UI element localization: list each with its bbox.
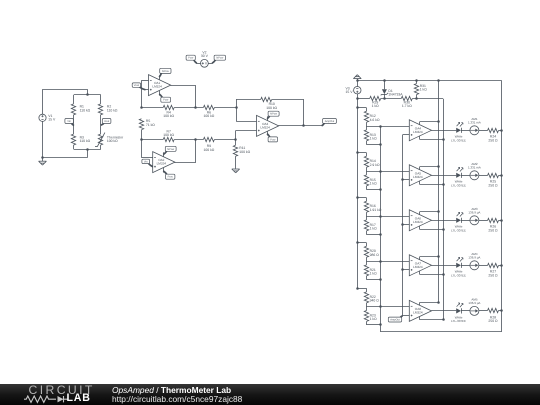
resistor R4 bbox=[163, 105, 174, 109]
wire OA8 V- stub bbox=[419, 316, 421, 319]
resistor R3 bbox=[71, 134, 75, 145]
wire R14 bottom lead bbox=[366, 167, 368, 171]
net flag AmpOut at OA3 output bbox=[322, 123, 325, 126]
voltage source V1 bbox=[39, 114, 46, 121]
wire bridge bottom rail bbox=[74, 149, 101, 151]
wire OA7 V- stub bbox=[419, 271, 421, 274]
wire LED to ammeter bbox=[461, 265, 470, 267]
wire OA7 V- to bus bbox=[420, 274, 444, 276]
wire R7 to R9 bbox=[174, 139, 203, 141]
wire divider 3 bottom elbow bbox=[366, 234, 380, 236]
svg-text:250 Ω: 250 Ω bbox=[488, 274, 498, 278]
wire OA1 feedback vertical bbox=[141, 81, 143, 108]
junction divider 5 top bbox=[356, 287, 359, 290]
svg-text:NPow: NPow bbox=[216, 57, 223, 60]
junction OA2 output node bbox=[194, 138, 197, 141]
junction V3 / reference rail bbox=[356, 97, 359, 100]
resistor R23 bbox=[364, 310, 368, 321]
svg-text:100 kΩ: 100 kΩ bbox=[107, 139, 118, 143]
thermistor diagonal foot bbox=[95, 146, 97, 148]
wire R15 top lead bbox=[366, 171, 368, 175]
wire ammeter to R27 bbox=[479, 265, 488, 267]
wire R2 top lead bbox=[100, 95, 102, 104]
svg-text:NPow: NPow bbox=[167, 148, 174, 151]
wire OA4 noninverting input bbox=[403, 134, 410, 136]
wire R11 to ground bbox=[235, 156, 237, 169]
wire ammeter to R24 bbox=[479, 130, 488, 132]
junction OA8 V+ bbox=[437, 301, 440, 304]
svg-text:100 kΩ: 100 kΩ bbox=[163, 133, 174, 137]
svg-text:136.9 µA: 136.9 µA bbox=[468, 301, 480, 305]
wire OA7 V+ to bus bbox=[420, 256, 439, 258]
wire OA3 V- stub bbox=[267, 131, 269, 135]
svg-text:110 kΩ: 110 kΩ bbox=[80, 139, 91, 143]
wire R22 bottom lead bbox=[366, 303, 368, 307]
wire divider 1 bottom elbow bbox=[366, 144, 380, 146]
wire R22 top lead bbox=[366, 288, 368, 292]
wire R11 top lead bbox=[235, 139, 237, 145]
wire bridge top rail bbox=[74, 94, 101, 96]
svg-text:1N4733A: 1N4733A bbox=[388, 93, 403, 97]
node flag Vin (bridge left) bbox=[71, 123, 74, 126]
svg-text:250 Ω: 250 Ω bbox=[488, 139, 498, 143]
ammeter AM2 bbox=[470, 171, 479, 180]
svg-text:LM324: LM324 bbox=[413, 220, 423, 224]
wire R28 to right rail bbox=[499, 310, 502, 312]
wire R5 bottom bbox=[141, 130, 143, 140]
wire OA7 V+ stub bbox=[419, 257, 421, 260]
svg-text:1 kΩ: 1 kΩ bbox=[370, 227, 378, 231]
wire OA8 output to LED bbox=[432, 310, 457, 312]
svg-text:AmpOut: AmpOut bbox=[325, 120, 335, 123]
svg-text:LM324: LM324 bbox=[157, 162, 167, 166]
svg-text:4.6 kΩ: 4.6 kΩ bbox=[370, 118, 380, 122]
junction input bus row 2 bbox=[401, 178, 404, 181]
wire comparator V+ bus bbox=[438, 81, 440, 303]
junction bridge top bbox=[86, 93, 89, 96]
wire R3 bottom lead bbox=[73, 145, 75, 149]
net flag Pow at OA3 bbox=[267, 134, 270, 138]
junction row 2 / right rail bbox=[500, 174, 503, 177]
svg-text:LTL-307EE: LTL-307EE bbox=[451, 319, 466, 323]
wire divider 4 bottom elbow bbox=[366, 279, 380, 281]
wire OA5 V- to bus bbox=[420, 184, 444, 186]
wire node A between R1 and R3 bbox=[73, 115, 75, 134]
resistor R14 bbox=[364, 156, 368, 167]
junction OA1 output node bbox=[194, 106, 197, 109]
wire to R29 bbox=[357, 98, 369, 100]
wire R23 top lead bbox=[366, 307, 368, 311]
wire R21 bottom lead bbox=[366, 276, 368, 279]
junction OA5 V+ bbox=[437, 165, 440, 168]
junction OA7 V+ bbox=[437, 255, 440, 258]
ammeter AM1 bbox=[470, 126, 479, 135]
junction bus A top bbox=[437, 79, 440, 82]
wire divider 5 top elbow bbox=[357, 288, 366, 290]
svg-text:AmpOut: AmpOut bbox=[390, 319, 400, 322]
svg-text:110 kΩ: 110 kΩ bbox=[107, 108, 118, 112]
wire V2 left lead bbox=[197, 63, 201, 65]
wire OA6 V+ stub bbox=[419, 212, 421, 215]
svg-text:NPow: NPow bbox=[270, 113, 277, 116]
junction OA1 inverting node bbox=[140, 106, 143, 109]
wire divider 3 top elbow bbox=[357, 197, 366, 199]
wire OA5 V+ stub bbox=[419, 167, 421, 170]
wire R29 to R30 bbox=[381, 98, 402, 100]
op-amp OA2 (LM324) bbox=[153, 152, 175, 173]
svg-text:1 kΩ: 1 kΩ bbox=[370, 272, 378, 276]
resistor R27 bbox=[488, 263, 499, 267]
wire R1 top lead bbox=[73, 95, 75, 104]
junction row 5 / right rail bbox=[500, 309, 503, 312]
wire top rail bbox=[357, 80, 502, 82]
wire OA7 noninverting input bbox=[403, 269, 410, 271]
resistor R6 bbox=[203, 105, 214, 109]
wire feedback right vertical bbox=[303, 99, 305, 126]
net flag Pow at V2 bbox=[193, 59, 197, 63]
junction input bus row 4 bbox=[401, 268, 404, 271]
wire LED to ammeter bbox=[461, 130, 470, 132]
svg-text:15 V: 15 V bbox=[48, 118, 56, 122]
wire V3 bottom lead bbox=[357, 94, 359, 99]
svg-text:136.9 µA: 136.9 µA bbox=[468, 210, 480, 214]
wire R30 to bus B bbox=[412, 98, 443, 100]
resistor R17 bbox=[364, 220, 368, 231]
svg-text:LM324: LM324 bbox=[260, 126, 270, 130]
wire R15 bottom lead bbox=[366, 186, 368, 189]
wire R20 top lead bbox=[366, 243, 368, 247]
wire OA4 V+ stub bbox=[419, 122, 421, 125]
wire node B between R2 and thermistor bbox=[100, 115, 102, 134]
svg-text:1 kΩ: 1 kΩ bbox=[370, 137, 378, 141]
node flag Vout at OA1 + bbox=[139, 86, 146, 89]
wire R4 to R6 bbox=[174, 107, 203, 109]
svg-text:1 kΩ: 1 kΩ bbox=[370, 317, 378, 321]
wire LED to ammeter bbox=[461, 310, 470, 312]
wire OA4 output to LED bbox=[432, 130, 457, 132]
wire OA3 inverting input bbox=[236, 121, 256, 123]
wire right edge rail bbox=[501, 81, 503, 332]
wire OA8 V- to bus bbox=[420, 319, 444, 321]
junction OA8 V- bbox=[442, 318, 445, 321]
resistor R24 bbox=[488, 128, 499, 132]
footer url bbox=[112, 394, 242, 404]
wire divider 1 tap to comparator bbox=[366, 126, 409, 128]
wire R12 top lead bbox=[366, 108, 368, 112]
wire OA2 output to R7/R9 node bbox=[175, 140, 196, 163]
wire thermistor bottom lead bbox=[100, 145, 102, 149]
LED D3 (White LTL-307EE) bbox=[456, 173, 461, 178]
resistor R30 bbox=[401, 96, 412, 100]
op-amp OA7 (LM324) bbox=[409, 255, 431, 276]
wire R20 bottom lead bbox=[366, 257, 368, 261]
svg-text:986 Ω: 986 Ω bbox=[370, 253, 380, 257]
wire OA3 V+ stub bbox=[267, 116, 269, 120]
net flag AmpOut at OA8 + bbox=[399, 316, 403, 319]
wire OA6 output to LED bbox=[432, 220, 457, 222]
wire divider 2 bottom elbow bbox=[366, 189, 380, 191]
svg-text:Vout: Vout bbox=[104, 120, 109, 123]
op-amp OA5 (LM324) bbox=[409, 165, 431, 186]
wire comparator V- bus bbox=[443, 99, 445, 320]
svg-text:250 Ω: 250 Ω bbox=[488, 184, 498, 188]
wire LED to ammeter bbox=[461, 175, 470, 177]
junction OA6 V+ bbox=[437, 210, 440, 213]
wire to R7 bbox=[141, 139, 163, 141]
wire R13 bottom lead bbox=[366, 141, 368, 144]
junction OA4 V- bbox=[442, 138, 445, 141]
wire OA2 feedback vertical bbox=[141, 139, 143, 157]
wire bridge top stem bbox=[87, 89, 89, 95]
ground near V1 bbox=[39, 160, 47, 162]
resistor R31 bbox=[416, 81, 418, 84]
wire divider 3 tap to comparator bbox=[366, 216, 409, 218]
wire R17 bottom lead bbox=[366, 231, 368, 234]
svg-text:1 kΩ: 1 kΩ bbox=[420, 88, 428, 92]
wire ground stem bbox=[357, 79, 359, 81]
junction output / feedback bbox=[302, 124, 305, 127]
resistor R26 bbox=[488, 218, 499, 222]
wire divider return bus bbox=[380, 126, 382, 332]
wire OA4 V- stub bbox=[419, 136, 421, 139]
resistor R13 bbox=[364, 130, 368, 141]
wire OA1 V- stub bbox=[159, 91, 161, 96]
junction row 3 / right rail bbox=[500, 219, 503, 222]
wire OA8 V+ stub bbox=[419, 302, 421, 305]
resistor R29 bbox=[370, 96, 381, 100]
junction tap 5 bbox=[379, 305, 382, 308]
wire OA3 output bbox=[279, 125, 322, 127]
svg-text:LM324: LM324 bbox=[413, 130, 423, 134]
net flag Pow at OA2 bbox=[163, 171, 167, 175]
wire OA4 V+ to bus bbox=[420, 121, 439, 123]
wire V2 right lead bbox=[208, 63, 212, 65]
svg-text:30 V: 30 V bbox=[201, 54, 209, 58]
wire OA3 inverting vertical bbox=[236, 99, 238, 121]
wire OA3 noninverting input bbox=[236, 130, 257, 132]
node flag Vin at OA2 + bbox=[148, 163, 153, 167]
wire V3+ vertical bus bbox=[357, 99, 359, 288]
resistor R5 bbox=[139, 119, 143, 130]
op-amp OA1 (LM324) bbox=[149, 75, 171, 96]
svg-text:Pow: Pow bbox=[163, 99, 168, 102]
wire OA1 inverting input bbox=[141, 80, 148, 82]
wire OA6 V- stub bbox=[419, 226, 421, 229]
resistor R28 bbox=[488, 308, 499, 312]
svg-text:LM324: LM324 bbox=[413, 175, 423, 179]
wire OA6 V- to bus bbox=[420, 229, 444, 231]
LED D2 (White LTL-307EE) bbox=[456, 128, 461, 133]
wire R21 top lead bbox=[366, 261, 368, 265]
wire OA8 V+ to bus bbox=[420, 302, 439, 304]
wire OA6 V+ to bus bbox=[420, 211, 439, 213]
footer title bbox=[112, 385, 231, 395]
op-amp OA6 (LM324) bbox=[409, 210, 431, 231]
net flag NPow at OA2 bbox=[163, 150, 167, 154]
wire R13 top lead bbox=[366, 126, 368, 130]
svg-text:NPow: NPow bbox=[162, 70, 169, 73]
ammeter AM3 bbox=[470, 216, 479, 225]
svg-text:LTL-307EE: LTL-307EE bbox=[451, 183, 466, 187]
svg-text:136.9 µA: 136.9 µA bbox=[468, 255, 480, 259]
svg-text:100 kΩ: 100 kΩ bbox=[203, 114, 214, 118]
svg-text:Vin: Vin bbox=[67, 120, 71, 123]
net flag NPow at OA1 bbox=[159, 73, 162, 78]
ammeter AM4 bbox=[470, 261, 479, 270]
junction OA6 V- bbox=[442, 228, 445, 231]
svg-text:LTL-307EE: LTL-307EE bbox=[451, 138, 466, 142]
wire OA2 V+ stub bbox=[163, 152, 165, 156]
svg-text:Vin: Vin bbox=[144, 160, 148, 163]
junction R31 top bbox=[415, 79, 418, 82]
net flag NPow at V2 bbox=[212, 59, 216, 63]
wire ammeter to R28 bbox=[479, 310, 488, 312]
wire to R4 bbox=[141, 107, 163, 109]
wire to R9 node bbox=[235, 131, 237, 140]
junction OA7 V- bbox=[442, 273, 445, 276]
wire to ground bbox=[42, 158, 44, 161]
wire OA2 inverting input bbox=[141, 157, 152, 159]
svg-text:1.331 mA: 1.331 mA bbox=[468, 165, 481, 169]
junction R31 bottom bbox=[415, 97, 418, 100]
thermistor RT1 bbox=[98, 134, 102, 145]
wire R17 top lead bbox=[366, 216, 368, 220]
resistor R16 bbox=[364, 201, 368, 212]
wire OA1 noninverting lead bbox=[145, 89, 148, 91]
svg-text:250 Ω: 250 Ω bbox=[488, 229, 498, 233]
junction divider 1 top bbox=[356, 106, 359, 109]
svg-text:2.9 kΩ: 2.9 kΩ bbox=[370, 163, 380, 167]
junction tap 3 bbox=[379, 215, 382, 218]
wire R27 to right rail bbox=[499, 265, 502, 267]
wire V1 bottom bbox=[42, 121, 44, 157]
wire OA5 V- stub bbox=[419, 181, 421, 184]
op-amp OA4 (LM324) bbox=[409, 120, 431, 141]
wire OA6 noninverting input bbox=[403, 224, 410, 226]
svg-text:1.7 kΩ: 1.7 kΩ bbox=[402, 104, 412, 108]
wire R14 top lead bbox=[366, 153, 368, 157]
LED D5 (White LTL-307EE) bbox=[456, 263, 461, 268]
wire R16 top lead bbox=[366, 198, 368, 202]
CircuitLab logo: LAB bbox=[67, 392, 91, 404]
junction tap 4 bbox=[379, 260, 382, 263]
junction row 1 / right rail bbox=[500, 129, 503, 132]
CircuitLab logo: CIRCUIT bbox=[29, 383, 95, 397]
resistor R21 bbox=[364, 265, 368, 276]
svg-text:100 kΩ: 100 kΩ bbox=[203, 148, 214, 152]
svg-text:250 Ω: 250 Ω bbox=[488, 319, 498, 323]
node flag Vout (bridge right) bbox=[101, 123, 105, 126]
wire LED to ammeter bbox=[461, 220, 470, 222]
svg-text:Pow: Pow bbox=[168, 176, 173, 179]
svg-text:110 kΩ: 110 kΩ bbox=[80, 108, 91, 112]
junction top rail / V3 bbox=[356, 79, 359, 82]
junction divider 3 bottom bbox=[379, 233, 382, 236]
wire ammeter to R26 bbox=[479, 220, 488, 222]
wire OA5 noninverting input bbox=[403, 179, 410, 181]
junction divider 1 bottom bbox=[379, 143, 382, 146]
CircuitLab logo: resistor-diode squiggle bbox=[24, 395, 70, 404]
resistor R7 bbox=[163, 137, 174, 141]
svg-text:LM324: LM324 bbox=[413, 265, 423, 269]
wire V1 top to top rail bbox=[42, 89, 44, 114]
wire divider 2 tap to comparator bbox=[366, 171, 409, 173]
junction divider 5 bottom bbox=[379, 323, 382, 326]
resistor R15 bbox=[364, 175, 368, 186]
wire divider 4 top elbow bbox=[357, 242, 366, 244]
junction V1 bottom node bbox=[41, 156, 44, 159]
wire R12 bottom lead bbox=[366, 122, 368, 126]
wire OA1 V+ stub bbox=[159, 75, 161, 79]
wire R10 to output bbox=[272, 99, 304, 101]
wire R6 to OA3 node bbox=[214, 107, 236, 109]
resistor R12 bbox=[364, 111, 368, 122]
resistor R25 bbox=[488, 173, 499, 177]
resistor R2 bbox=[98, 104, 102, 115]
thermistor diagonal bbox=[97, 133, 105, 147]
wire OA8 noninverting input bbox=[403, 315, 410, 317]
wire R9 to OA3 node bbox=[214, 139, 235, 141]
junction divider 2 top bbox=[356, 151, 359, 154]
ammeter AM5 bbox=[470, 306, 479, 315]
wire R24 to right rail bbox=[499, 130, 502, 132]
wire AmpOut input bus bbox=[402, 135, 404, 316]
junction divider 3 top bbox=[356, 196, 359, 199]
svg-text:100 kΩ: 100 kΩ bbox=[266, 106, 277, 110]
junction input bus row 3 bbox=[401, 223, 404, 226]
LED D6 (White LTL-307EE) bbox=[456, 308, 461, 313]
svg-text:LTL-307EE: LTL-307EE bbox=[451, 228, 466, 232]
svg-text:Pow: Pow bbox=[270, 138, 275, 141]
wire V3 top lead bbox=[357, 81, 359, 87]
svg-text:LM324: LM324 bbox=[413, 311, 423, 315]
junction bridge bottom bbox=[86, 148, 89, 151]
voltage source V2 bbox=[201, 59, 209, 67]
junction divider 2 bottom bbox=[379, 188, 382, 191]
svg-text:Vout: Vout bbox=[134, 84, 139, 87]
net flag NPow at OA3 bbox=[267, 115, 270, 119]
resistor R20 bbox=[364, 246, 368, 257]
wire OA4 V- to bus bbox=[420, 139, 444, 141]
wire R16 bottom lead bbox=[366, 212, 368, 216]
wire divider 1 top elbow bbox=[357, 107, 366, 109]
svg-text:940 Ω: 940 Ω bbox=[370, 299, 380, 303]
resistor R9 bbox=[203, 137, 214, 141]
svg-text:71 kΩ: 71 kΩ bbox=[146, 123, 155, 127]
wire divider 5 bottom elbow bbox=[366, 324, 380, 326]
svg-text:1.91 kΩ: 1.91 kΩ bbox=[370, 208, 382, 212]
junction tap 2 bbox=[379, 170, 382, 173]
junction OA5 V- bbox=[442, 183, 445, 186]
wire OA2 V- stub bbox=[163, 168, 165, 173]
voltage source V3 bbox=[354, 87, 361, 94]
wire bottom rail bbox=[380, 331, 502, 333]
junction R9 / R11 bbox=[234, 138, 237, 141]
svg-text:1 kΩ: 1 kΩ bbox=[370, 182, 378, 186]
wire ammeter to R25 bbox=[479, 175, 488, 177]
wire R25 to right rail bbox=[499, 175, 502, 177]
ground at top of comparator bank bbox=[353, 78, 361, 80]
wire divider 2 top elbow bbox=[357, 152, 366, 154]
wire bottom return bbox=[43, 157, 88, 159]
footer bar bbox=[0, 384, 540, 405]
svg-text:Pow: Pow bbox=[188, 57, 193, 60]
resistor R1 bbox=[71, 104, 75, 115]
junction OA2 inverting node bbox=[140, 138, 143, 141]
wire bridge bottom stem bbox=[87, 149, 89, 157]
junction R6 / feedback bbox=[235, 106, 238, 109]
junction divider 4 top bbox=[356, 241, 359, 244]
